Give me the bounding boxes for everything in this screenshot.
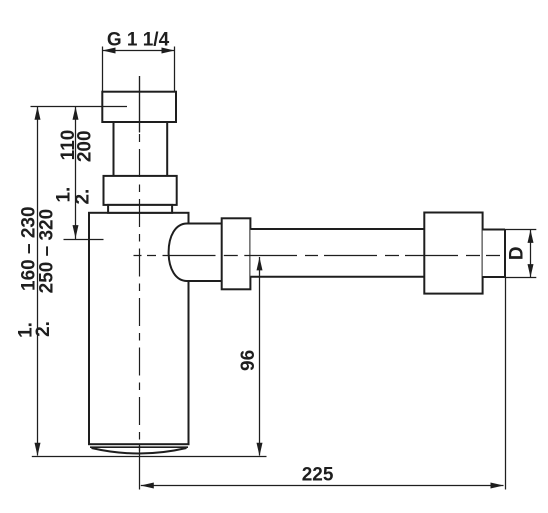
right wall nut [424,213,482,294]
step ring below nut [108,205,172,213]
svg-text:225: 225 [302,465,334,486]
G 1 1/4 dimension line [103,47,175,92]
dimension line 110 / 200 [64,107,104,240]
svg-text:200: 200 [75,130,96,162]
centerline through cap [139,76,141,132]
arrow down [73,225,79,238]
wall pipe [250,229,424,277]
dimension D [505,230,536,278]
svg-text:D: D [507,246,528,260]
arrow up [73,107,79,120]
horizontal centerline of wall pipe [134,255,501,257]
arrow up [528,230,534,243]
vertical tube below cap [114,121,168,177]
dimension line 96 [259,257,261,456]
svg-text:250 – 320: 250 – 320 [37,209,58,294]
arrow up [257,257,263,270]
svg-text:96: 96 [238,350,259,371]
svg-text:2.: 2. [33,321,54,337]
arrow left [141,483,154,489]
G dim arrow left [102,48,115,54]
nut on elbow [222,218,251,289]
G dim arrow right [162,48,175,54]
elbow outlet [169,224,222,282]
arrow down [528,264,534,277]
arrow up [35,107,41,120]
datum leader line at cap mid [31,106,128,108]
svg-text:1.: 1. [54,187,75,203]
arrow right [491,483,504,489]
pipe stub end [483,230,505,278]
bottom extension line at cup base [32,456,267,458]
extension line from centerline down to 225 dim [139,444,141,490]
dimension line 225 [141,485,504,487]
svg-text:2.: 2. [73,189,94,205]
dimension line 160-230 / 250-320 [37,107,39,456]
arrow down [35,443,41,456]
slip nut below tube [104,176,177,205]
extension line pipe end down [505,277,507,490]
body cup of siphon [89,213,189,454]
vertical centerline of trap [139,76,141,451]
top cap fitting G 1 1/4 [102,92,176,122]
svg-text:G 1 1/4: G 1 1/4 [107,30,170,51]
arrow down [257,443,263,456]
